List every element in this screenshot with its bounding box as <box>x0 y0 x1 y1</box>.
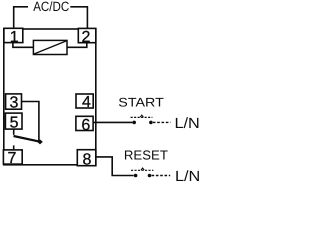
svg-text:L/N: L/N <box>175 169 200 185</box>
svg-text:7: 7 <box>7 150 16 167</box>
svg-text:8: 8 <box>82 151 91 168</box>
svg-text:2: 2 <box>81 29 90 46</box>
svg-text:RESET: RESET <box>124 148 168 163</box>
svg-text:L/N: L/N <box>175 116 200 132</box>
svg-text:AC/DC: AC/DC <box>33 0 69 14</box>
svg-text:START: START <box>118 96 164 110</box>
svg-text:5: 5 <box>10 115 19 132</box>
svg-text:1: 1 <box>10 29 19 46</box>
svg-text:6: 6 <box>81 117 90 134</box>
svg-text:4: 4 <box>82 94 91 111</box>
svg-text:3: 3 <box>10 94 19 111</box>
